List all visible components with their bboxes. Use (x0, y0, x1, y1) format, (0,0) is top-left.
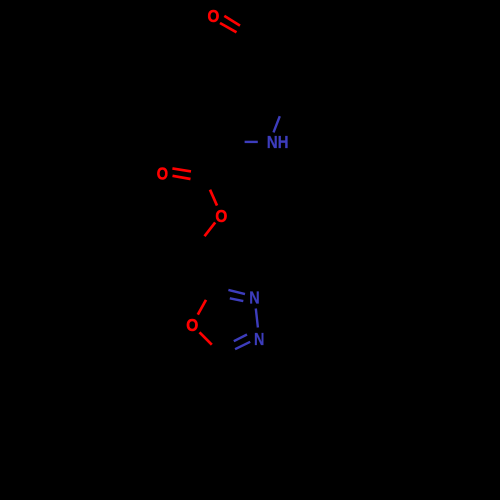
bond C2=N3 inner line (230, 298, 244, 301)
svg-text:O: O (186, 315, 198, 335)
bond C-O ester half (diagonal) (210, 190, 217, 206)
bond C=O aldehyde upper line (224, 16, 240, 26)
bond N3-N4 (256, 309, 258, 328)
bond ester C=O lower line (173, 176, 191, 179)
bond N1-C5 half (diagonal up-right) (274, 116, 280, 132)
svg-text:NH: NH (267, 132, 289, 152)
svg-text:N: N (249, 287, 259, 307)
svg-text:N: N (254, 329, 264, 349)
bond C2=N3 main line (228, 290, 245, 294)
bond N1-C2 half (horizontal left) (245, 141, 258, 143)
oxadiazole O1-C5 bond half (diagonal down-right) (200, 332, 212, 344)
svg-text:O: O (208, 6, 220, 26)
bond C=O aldehyde lower line (220, 23, 237, 32)
svg-text:O: O (215, 206, 227, 226)
bond O-CH2 half (diagonal down-left) (205, 222, 216, 236)
bond N4=C5 inner line (234, 335, 247, 342)
bond N4=C5 main line (235, 342, 250, 349)
svg-text:O: O (157, 163, 168, 183)
bond ester C=O upper line (172, 168, 191, 171)
oxadiazole O1-C2 bond half (diagonal up-right) (198, 300, 206, 315)
